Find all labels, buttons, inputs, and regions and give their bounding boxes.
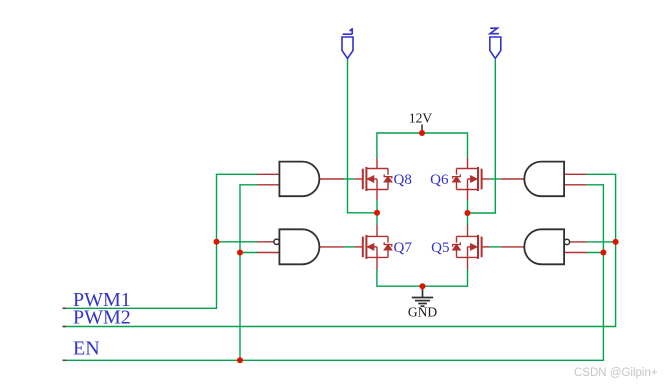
connector 2 (port): [490, 37, 501, 59]
wire node B to Q5 drain: [467, 213, 469, 225]
wire EN horizontal: [63, 185, 603, 360]
junction node B: [465, 210, 471, 216]
pin stub G3 input A: [564, 173, 586, 175]
and-gate G1 (top left): [279, 162, 319, 197]
pin stub G1 output: [319, 178, 343, 180]
pin stub G4 input B: [564, 252, 587, 254]
pin stub G2 output: [319, 246, 343, 248]
bubble G2 input: [274, 239, 279, 244]
junction EN / G2 lower input: [237, 250, 243, 256]
pin stub G1 input B: [257, 184, 279, 186]
wire gate G4 output to Q5 gate: [490, 246, 501, 248]
wire end marker PWM1: [63, 307, 67, 309]
svg-text:PWM2: PWM2: [73, 307, 131, 329]
wire PWM2 horizontal: [63, 174, 616, 326]
wire gate G1 output to Q8 gate: [344, 178, 355, 180]
pin stub G2 input B: [257, 252, 279, 254]
wire PWM2 branch to right NAND bubble input: [587, 241, 616, 243]
junction 12V rail: [419, 130, 425, 136]
junction GND rail: [420, 283, 426, 289]
pin stub G3 input B: [564, 184, 586, 186]
wire Q6 source to node B: [467, 200, 469, 213]
wire end marker EN: [63, 359, 67, 361]
svg-text:Q6: Q6: [430, 172, 449, 188]
wire end marker PWM2: [63, 326, 67, 328]
svg-text:Q7: Q7: [394, 240, 413, 256]
junction EN line: [237, 357, 243, 363]
transistor Q8: [355, 158, 392, 200]
power port 12V: [421, 125, 423, 134]
junction PWM2 / G4 input: [613, 239, 619, 245]
label 1 (rotated): [343, 28, 353, 34]
wire connector 2 to node B: [468, 60, 496, 214]
wire gate G3 output to Q6 gate: [490, 178, 501, 180]
wire EN branch to right NAND lower input: [587, 252, 603, 254]
junction node A: [374, 210, 380, 216]
svg-text:CSDN @Gilpin+: CSDN @Gilpin+: [574, 367, 658, 379]
connector 1 (port): [342, 37, 353, 59]
wire GND rail: [377, 270, 468, 287]
svg-text:Q5: Q5: [431, 240, 449, 256]
and-gate G4 (bottom right, mirrored, inverted top input): [524, 229, 564, 264]
wire PWM1 branch to NAND bubble input: [217, 241, 259, 243]
wire gate G2 output to Q7 gate: [344, 246, 355, 248]
pin stub G3 output: [501, 178, 525, 180]
ground symbol: [412, 286, 433, 306]
bubble G4 input: [564, 239, 569, 244]
svg-text:GND: GND: [408, 305, 437, 320]
wire 12V rail: [377, 133, 468, 158]
wire Q8 source to node A: [376, 200, 378, 213]
pin stub G4 input A (from bubble): [570, 241, 587, 243]
transistor Q5: [453, 225, 490, 270]
wire connector 1 to node A: [348, 59, 378, 213]
svg-text:EN: EN: [73, 338, 100, 360]
junction PWM1 / G2 input: [214, 239, 220, 245]
pin stub G2 input A (to bubble): [257, 241, 274, 243]
junction EN / G4 lower input: [600, 250, 606, 256]
and-gate G3 (top right, mirrored): [524, 162, 564, 197]
wire EN branch to left NAND lower input: [240, 252, 258, 254]
label 2: [490, 28, 499, 34]
transistor Q6: [453, 158, 490, 200]
wire PWM1 horizontal: [63, 174, 258, 308]
wire EN left vertical: [240, 185, 258, 360]
wire node A to Q7 drain: [376, 213, 378, 225]
transistor Q7: [355, 225, 392, 270]
svg-text:Q8: Q8: [394, 172, 412, 188]
svg-text:12V: 12V: [409, 111, 433, 126]
and-gate G2 (bottom left, inverted top input): [279, 229, 319, 264]
pin stub G1 input A: [257, 173, 279, 175]
pin stub G4 output: [501, 246, 525, 248]
